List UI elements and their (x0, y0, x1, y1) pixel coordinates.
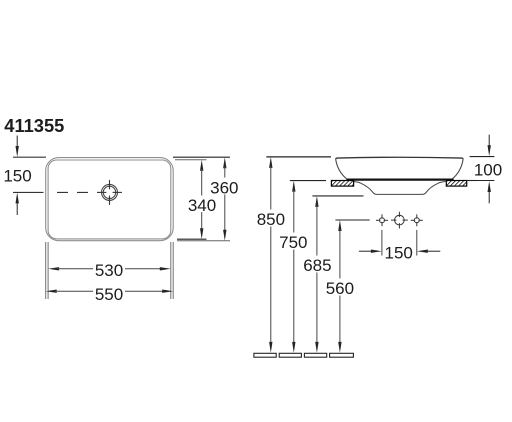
dimension 100: label (474, 160, 502, 179)
countertop line right (466, 180, 477, 182)
dimension 100: top extension line (470, 156, 495, 158)
dimension 360: line with arrows (223, 157, 226, 241)
dimension 530: label (95, 261, 123, 280)
svg-text:560: 560 (326, 279, 354, 298)
dimension 685: label (303, 256, 331, 275)
dimension 850: top extension line (266, 156, 331, 158)
drain hole center (391, 212, 408, 229)
side view basin rim outline (336, 157, 463, 179)
dimension 150 left: upper extension line (13, 156, 46, 158)
countertop line left (290, 180, 326, 182)
dimension 750: label (279, 233, 307, 252)
basin top view inner outline (48, 160, 171, 239)
article number 411355 (4, 115, 64, 136)
svg-text:150: 150 (3, 167, 31, 186)
dimension 685: line with arrows (315, 196, 318, 353)
dimension 530: line with arrows (48, 267, 171, 270)
dimension 530/550: left inner extension line (47, 242, 49, 299)
svg-text:530: 530 (95, 261, 123, 280)
basin top view outer outline (46, 158, 174, 241)
svg-text:850: 850 (257, 210, 285, 229)
countertop cross-section hatch left (331, 181, 353, 187)
floor tile 4 (330, 353, 354, 357)
dimension 340: top extension line (175, 159, 207, 161)
dimension 560: extension line (335, 219, 369, 221)
svg-text:685: 685 (303, 256, 331, 275)
dimension 340: line with arrows (200, 160, 203, 239)
dimension 850: label (257, 210, 285, 229)
svg-text:411355: 411355 (4, 115, 64, 136)
svg-text:150: 150 (385, 244, 413, 263)
side view basin base edge (346, 179, 453, 181)
dimension 340: bottom extension line (177, 238, 207, 240)
dimension 150 right: right arrow (417, 250, 441, 253)
dimension 685: extension line (312, 195, 363, 197)
dimension 150 right: label (385, 244, 413, 263)
dimension 360: bottom extension line (177, 240, 230, 242)
dimension 530/550: right inner extension line (170, 242, 172, 299)
dimension 550: line with arrows (46, 290, 174, 293)
tap hole crosshair (97, 180, 122, 205)
dimension 150 right: left arrow (359, 250, 382, 253)
fixing hole right (411, 214, 423, 226)
svg-text:550: 550 (95, 285, 123, 304)
dimension 150 right: left extension line (381, 230, 383, 256)
dimension 150 left: upper arrow (16, 136, 19, 158)
side view basin underside outline (354, 182, 446, 195)
dimension 360: label (210, 178, 238, 197)
floor tile 2 (279, 353, 301, 357)
svg-text:100: 100 (474, 160, 502, 179)
countertop cross-section hatch right (446, 181, 466, 187)
dimension 150 right: right extension line (416, 230, 418, 256)
dimension 340: label (188, 196, 216, 215)
svg-text:340: 340 (188, 196, 216, 215)
dimension 150 left: lower extension line (13, 191, 44, 193)
dimension 150 left: lower arrow (16, 192, 19, 215)
dimension 850: line with arrows (269, 157, 272, 353)
dimension 150 left: label (3, 167, 31, 186)
svg-text:750: 750 (279, 233, 307, 252)
svg-text:360: 360 (210, 178, 238, 197)
centerline dashed to tap hole (57, 191, 97, 193)
dimension 530/550: right outer extension line (172, 242, 174, 299)
dimension 100: lower arrow (488, 181, 491, 203)
fixing hole left (376, 214, 388, 226)
floor tile 1 (254, 353, 276, 357)
dimension 360: top extension line (173, 156, 230, 158)
dimension 530/550: left outer extension line (45, 242, 47, 299)
floor tile 3 (304, 353, 326, 357)
dimension 560: label (326, 279, 354, 298)
dimension 100: bottom extension line (474, 180, 494, 182)
dimension 750: line with arrows (292, 181, 295, 353)
dimension 560: line with arrows (338, 220, 341, 353)
dimension 550: label (95, 285, 123, 304)
dimension 100: upper arrow (488, 135, 491, 157)
